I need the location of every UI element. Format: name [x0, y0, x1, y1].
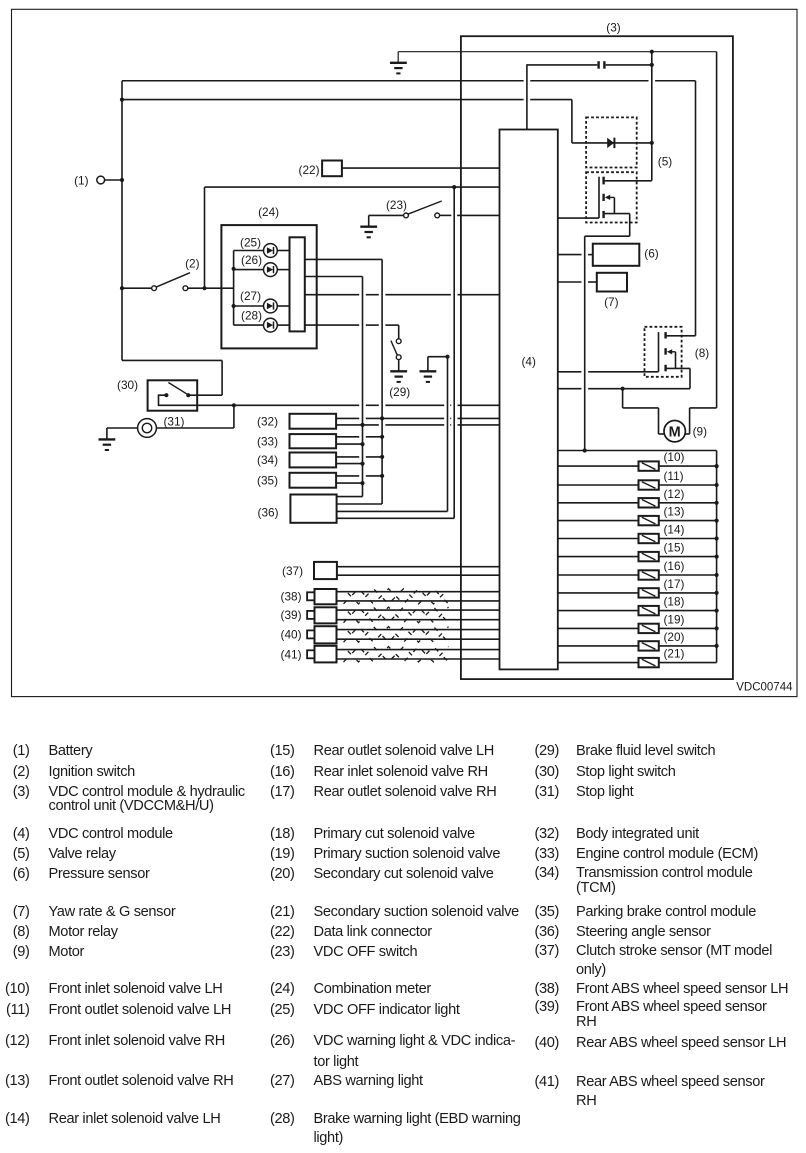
svg-text:(18): (18)	[664, 595, 685, 609]
svg-text:(41): (41)	[281, 648, 302, 662]
svg-text:(33): (33)	[257, 434, 278, 448]
svg-text:(24): (24)	[258, 205, 279, 219]
svg-text:(15): (15)	[664, 541, 685, 555]
svg-text:(37): (37)	[282, 564, 303, 578]
svg-text:(1): (1)	[74, 173, 88, 187]
svg-text:(17): (17)	[664, 577, 685, 591]
svg-text:(28): (28)	[241, 308, 262, 322]
svg-text:(38): (38)	[281, 590, 302, 604]
svg-text:(5): (5)	[658, 154, 672, 168]
svg-text:(26): (26)	[241, 253, 262, 267]
svg-text:(32): (32)	[257, 414, 278, 428]
svg-text:(20): (20)	[664, 630, 685, 644]
svg-text:(4): (4)	[521, 355, 535, 369]
svg-text:(31): (31)	[164, 415, 185, 429]
svg-text:(11): (11)	[664, 469, 684, 483]
svg-text:(40): (40)	[281, 628, 302, 642]
svg-text:(12): (12)	[664, 487, 685, 501]
svg-text:(29): (29)	[389, 385, 410, 399]
svg-text:(16): (16)	[664, 559, 685, 573]
svg-text:(19): (19)	[664, 612, 685, 626]
svg-text:(25): (25)	[240, 236, 261, 250]
svg-text:(21): (21)	[664, 647, 685, 661]
svg-text:(3): (3)	[606, 20, 620, 34]
svg-text:(30): (30)	[117, 378, 138, 392]
svg-text:(36): (36)	[258, 506, 279, 520]
svg-text:(10): (10)	[664, 450, 685, 464]
svg-text:M: M	[669, 424, 681, 440]
svg-text:(6): (6)	[644, 247, 658, 261]
svg-text:(2): (2)	[185, 257, 199, 271]
svg-text:(13): (13)	[664, 505, 685, 519]
svg-text:(23): (23)	[386, 198, 407, 212]
svg-text:VDC00744: VDC00744	[736, 682, 793, 694]
svg-text:(14): (14)	[664, 523, 685, 537]
svg-text:(35): (35)	[257, 473, 278, 487]
svg-text:(7): (7)	[604, 295, 618, 309]
svg-text:(39): (39)	[281, 608, 302, 622]
svg-text:(9): (9)	[693, 425, 707, 439]
svg-text:(8): (8)	[695, 346, 709, 360]
svg-text:(22): (22)	[299, 163, 320, 177]
svg-text:(34): (34)	[257, 453, 278, 467]
svg-text:(27): (27)	[240, 289, 261, 303]
